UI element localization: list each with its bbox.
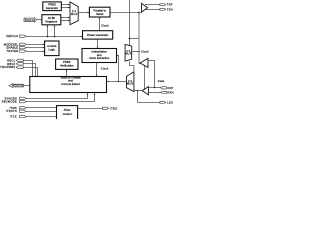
svg-text:MUX: MUX <box>125 52 132 56</box>
svg-text:Phase Generator: Phase Generator <box>87 33 108 37</box>
svg-text:/TMS: /TMS <box>10 106 17 110</box>
svg-text:RD(0:9): RD(0:9) <box>12 84 23 88</box>
svg-text:Registers: Registers <box>45 19 57 23</box>
svg-text:RBC1: RBC1 <box>7 58 15 62</box>
svg-text:Logic: Logic <box>48 48 55 52</box>
svg-text:TD(0:9): TD(0:9) <box>25 18 36 22</box>
svg-text:MUX: MUX <box>127 82 134 86</box>
svg-text:TXN: TXN <box>167 8 173 12</box>
svg-text:/TRSTN: /TRSTN <box>6 109 17 113</box>
svg-text:REFCLK: REFCLK <box>6 34 18 38</box>
svg-text:Comma Detect: Comma Detect <box>61 82 80 86</box>
svg-text:Generator: Generator <box>46 6 59 10</box>
svg-text:LOS: LOS <box>167 101 173 105</box>
svg-text:Clock: Clock <box>101 23 109 27</box>
svg-text:MUX: MUX <box>71 12 78 16</box>
svg-text:MODESEL: MODESEL <box>4 42 19 46</box>
svg-text:TESTEN: TESTEN <box>6 49 18 53</box>
svg-text:SYNC/PRBS: SYNC/PRBS <box>0 65 15 69</box>
svg-text:RXN: RXN <box>167 91 173 95</box>
svg-text:RXP: RXP <box>167 86 173 90</box>
svg-text:Verification: Verification <box>60 64 74 68</box>
svg-text:Serial: Serial <box>96 12 104 16</box>
svg-text:RBCMODE: RBCMODE <box>2 100 17 104</box>
svg-text:SYNCEN: SYNCEN <box>4 96 16 100</box>
svg-text:Control: Control <box>62 112 71 116</box>
svg-text:TXP: TXP <box>167 3 173 7</box>
svg-text:Clock: Clock <box>101 66 109 70</box>
svg-text:/TDO: /TDO <box>110 106 117 110</box>
svg-text:Data: Data <box>158 79 165 83</box>
svg-text:RBC0: RBC0 <box>7 62 15 66</box>
svg-text:Clock Extraction: Clock Extraction <box>89 56 110 60</box>
svg-text:Clock: Clock <box>141 50 149 54</box>
svg-text:/TCK: /TCK <box>10 115 17 119</box>
svg-text:ENABLE: ENABLE <box>6 46 18 50</box>
